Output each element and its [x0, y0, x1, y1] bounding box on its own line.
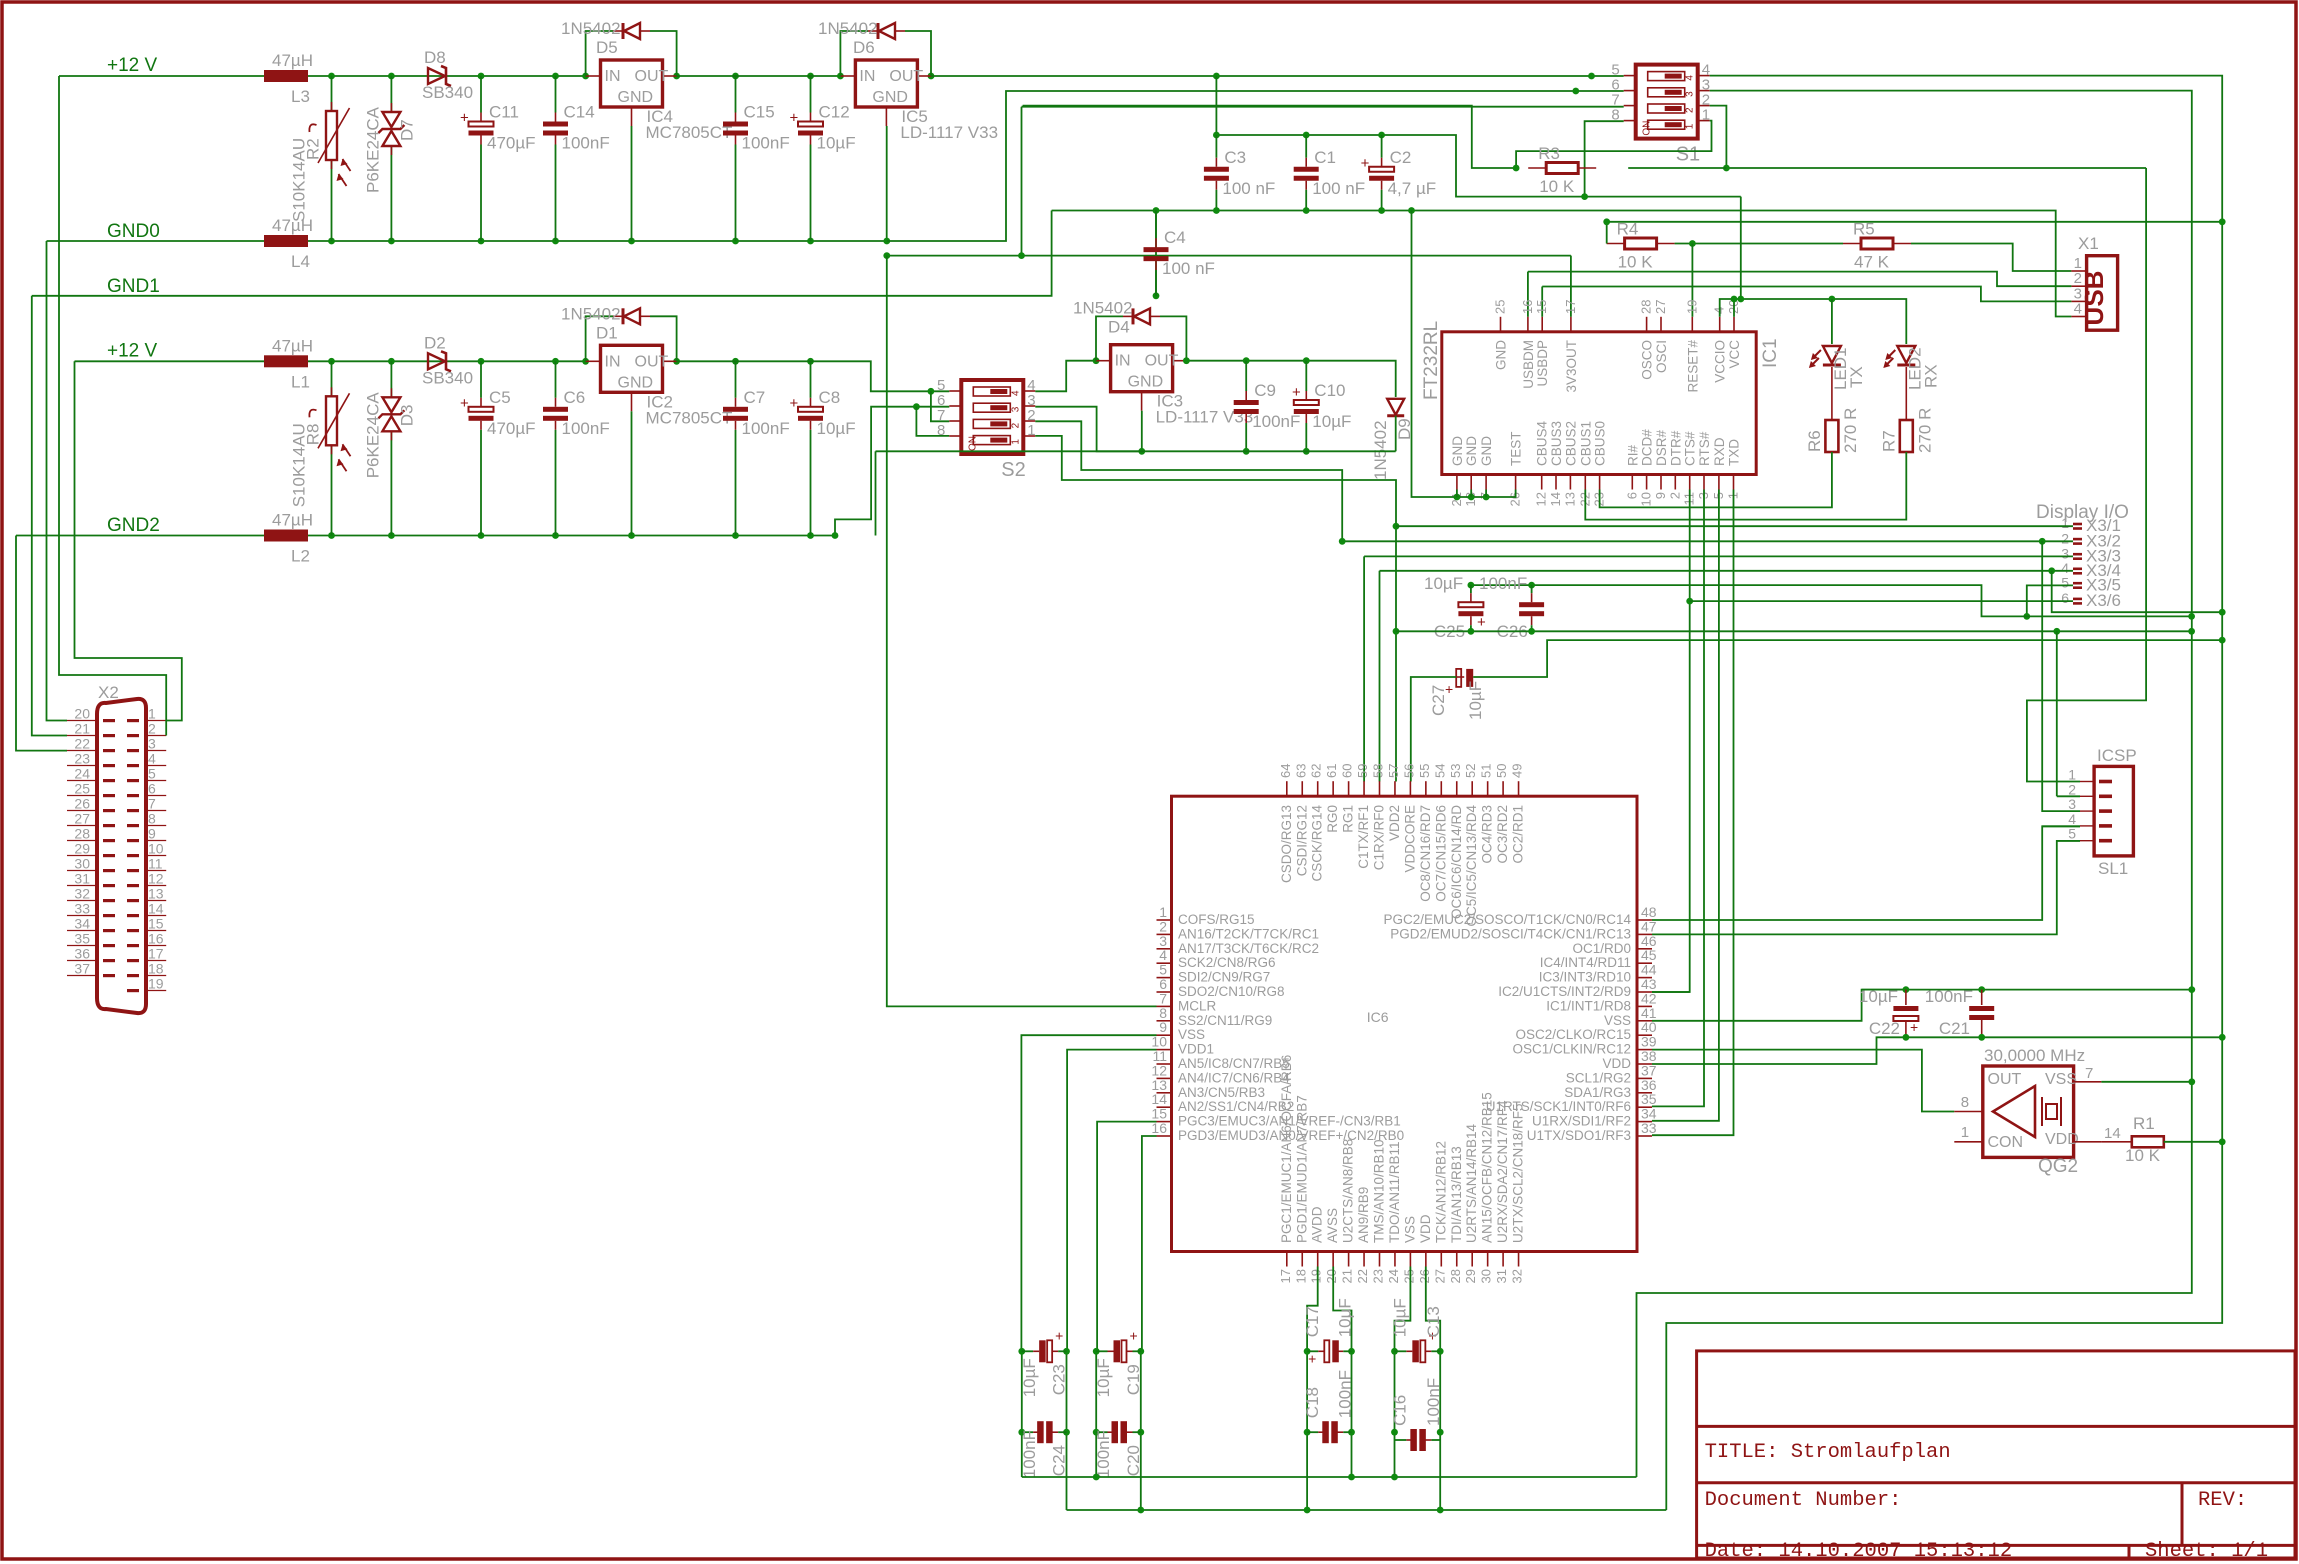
wire X3/1 row — [1396, 525, 2073, 527]
svg-text:25: 25 — [74, 781, 90, 797]
svg-text:+: + — [1130, 1327, 1138, 1343]
junction — [478, 358, 485, 365]
svg-text:OSCO: OSCO — [1640, 340, 1655, 380]
pin 5 RXD IC1 — [1718, 475, 1720, 490]
wire USBDM to X1 pin2 — [1528, 272, 2071, 287]
svg-text:1: 1 — [2068, 767, 2076, 783]
wire 5V to IC5 — [811, 75, 841, 77]
svg-text:U2RTS/AN14/RB14: U2RTS/AN14/RB14 — [1464, 1123, 1479, 1243]
svg-text:10µF: 10µF — [1020, 1358, 1039, 1397]
wire X3/4 riser — [1379, 571, 1381, 782]
svg-text:SB340: SB340 — [422, 83, 473, 102]
wire X3/3 row — [1364, 555, 2073, 557]
wire USB GND row — [876, 450, 1396, 452]
svg-text:AN9/RB9: AN9/RB9 — [1356, 1187, 1371, 1243]
svg-text:C13: C13 — [1424, 1306, 1443, 1337]
pin 34 IC6 — [1637, 1121, 1652, 1123]
svg-text:C20: C20 — [1124, 1445, 1143, 1476]
svg-text:8: 8 — [937, 422, 945, 439]
wire GND1 riser — [32, 211, 1052, 296]
wire S1 pin7 net row — [887, 255, 1571, 257]
pin 5 X2 — [146, 780, 166, 782]
svg-text:18: 18 — [148, 961, 164, 977]
svg-text:IN: IN — [605, 353, 621, 370]
svg-text:8: 8 — [1961, 1094, 1969, 1111]
wire X2 pin22 GND2 — [16, 536, 67, 751]
inductor L2 — [264, 530, 308, 542]
pin 7 X2 — [146, 810, 166, 812]
svg-text:3: 3 — [2068, 796, 2076, 812]
wire PGC2 pin48 to ICSP4 — [1652, 826, 2080, 920]
svg-text:CBUS4: CBUS4 — [1535, 420, 1550, 466]
svg-text:+: + — [460, 110, 469, 127]
svg-text:1: 1 — [148, 706, 156, 722]
wire VSS pin9 — [1021, 1035, 1156, 1351]
svg-text:10 K: 10 K — [1618, 253, 1654, 272]
pin 35 X2 — [67, 945, 97, 947]
pin 59 IC6 — [1363, 781, 1365, 796]
svg-text:VDD1: VDD1 — [1178, 1042, 1214, 1057]
svg-text:CBUS0: CBUS0 — [1593, 421, 1608, 466]
capacitor C20 — [1096, 1431, 1107, 1433]
diode D6 — [868, 30, 878, 32]
svg-text:47µH: 47µH — [272, 51, 313, 70]
svg-text:47µH: 47µH — [272, 511, 313, 530]
pin 3 SL1 — [2080, 810, 2094, 812]
wire 3V3OUT riser — [1570, 256, 1572, 317]
wire X3/2 row — [1342, 540, 2073, 542]
capacitor C16 — [1395, 1439, 1407, 1441]
capacitor C12 — [810, 76, 812, 113]
pin 62 IC6 — [1317, 781, 1319, 796]
svg-text:P6KE24CA: P6KE24CA — [363, 106, 382, 193]
svg-text:GND1: GND1 — [107, 276, 160, 297]
svg-text:Date: 14.10.2007 15:13:12: Date: 14.10.2007 15:13:12 — [1705, 1540, 2013, 1563]
inductor L3 — [264, 70, 308, 82]
svg-text:34: 34 — [74, 916, 90, 932]
svg-text:S10K14AU: S10K14AU — [290, 138, 309, 222]
svg-text:31: 31 — [74, 871, 90, 887]
pin 32 IC6 — [1518, 1252, 1520, 1267]
svg-text:FT232RL: FT232RL — [1421, 321, 1442, 400]
DIP switch S2 — [961, 380, 1023, 454]
wire X2 pin1 +12V(2) — [75, 361, 182, 720]
pin 14 QG2 — [2074, 1141, 2102, 1143]
wire S1 pin8 to 3.3V — [1585, 121, 1624, 196]
pin 10 X2 — [146, 855, 166, 857]
wire FT232 GND row — [1412, 211, 1516, 498]
svg-text:33: 33 — [1641, 1120, 1657, 1136]
svg-text:GND: GND — [872, 89, 908, 106]
svg-text:VCCIO: VCCIO — [1713, 340, 1728, 383]
svg-text:TMS/AN10/RB10: TMS/AN10/RB10 — [1372, 1139, 1387, 1243]
pin 7 IC6 — [1157, 1005, 1172, 1007]
wire 3.3V branch row — [1215, 76, 1217, 135]
pin 6 X2 — [146, 795, 166, 797]
pin 30 IC6 — [1487, 1252, 1489, 1267]
svg-text:1N5402: 1N5402 — [818, 19, 878, 38]
wire PGD2 pin47 to ICSP5 — [1652, 841, 2080, 935]
wire CBUS1 to R7 — [1585, 452, 1906, 520]
capacitor C21 — [1981, 990, 1983, 1005]
pin 12 CBUS4 IC1 — [1541, 475, 1543, 490]
svg-text:TDI/AN13/RB13: TDI/AN13/RB13 — [1449, 1146, 1464, 1243]
pin 37 X2 — [67, 975, 97, 977]
svg-text:+12 V: +12 V — [107, 340, 158, 361]
pin 13 CBUS2 IC1 — [1569, 475, 1571, 490]
svg-text:30: 30 — [74, 856, 90, 872]
pin 29 X2 — [67, 855, 97, 857]
wire USBDP to X1 pin3 — [1542, 287, 2071, 302]
pin 29 IC6 — [1471, 1252, 1473, 1267]
svg-text:OC5/IC5/CN13/RD4: OC5/IC5/CN13/RD4 — [1464, 805, 1479, 927]
wire ICSP pin2 riser — [2056, 631, 2058, 796]
wire S2 pin3 to GND row — [1035, 407, 1142, 452]
svg-text:RX: RX — [1921, 364, 1940, 388]
wire R3 right net — [1628, 167, 1726, 169]
svg-text:8: 8 — [1611, 107, 1619, 124]
pin 10 IC6 — [1157, 1049, 1172, 1051]
pin 36 IC6 — [1637, 1092, 1652, 1094]
wire C21/C22 top row — [1862, 989, 2192, 991]
wire S2 pin2 to X3/2 — [1035, 421, 1342, 541]
wire LED1 to R6 — [1831, 367, 1833, 420]
svg-text:100nF: 100nF — [562, 419, 610, 438]
svg-text:C15: C15 — [744, 103, 775, 122]
pin 23 CBUS0 IC1 — [1599, 475, 1601, 490]
wire VDD1 pin10 — [1067, 1050, 1156, 1352]
svg-text:LD-1117 V33: LD-1117 V33 — [900, 123, 998, 142]
pin 46 IC6 — [1637, 948, 1652, 950]
svg-text:10µF: 10µF — [817, 419, 856, 438]
svg-text:AVSS: AVSS — [1325, 1208, 1340, 1243]
svg-text:27: 27 — [1432, 1269, 1447, 1283]
wire GND rail — [47, 240, 265, 242]
pin 4 VCCIO IC1 — [1719, 317, 1721, 332]
svg-text:AN17/T3CK/T6CK/RC2: AN17/T3CK/T6CK/RC2 — [1178, 941, 1319, 956]
svg-text:VDD: VDD — [1418, 1214, 1433, 1243]
svg-text:C9: C9 — [1254, 381, 1276, 400]
pin X3/5 — [2073, 582, 2082, 585]
pin 12 X2 — [146, 885, 166, 887]
wire C25/C26 top row — [1471, 585, 2192, 616]
svg-text:Sheet: 1/1: Sheet: 1/1 — [2145, 1540, 2268, 1563]
svg-text:VDD2: VDD2 — [1387, 805, 1402, 841]
pin 2 X2 — [146, 735, 166, 737]
svg-text:OUT: OUT — [889, 68, 923, 85]
pin 2 X1 — [2071, 285, 2086, 287]
svg-text:R6: R6 — [1805, 430, 1824, 452]
pin 21 GND IC1 — [1456, 475, 1458, 490]
capacitor C27 — [1456, 676, 1464, 678]
svg-text:+: + — [1477, 614, 1486, 631]
svg-text:5: 5 — [2068, 826, 2076, 842]
svg-text:OC7/CN15/RD6: OC7/CN15/RD6 — [1433, 805, 1448, 902]
svg-text:AN15/OCFB/CN12/RB15: AN15/OCFB/CN12/RB15 — [1480, 1092, 1495, 1243]
varistor R8 — [331, 387, 333, 396]
resistor R4 — [1607, 243, 1625, 245]
pin 8 IC6 — [1157, 1020, 1172, 1022]
pin 24 X2 — [67, 780, 97, 782]
wire varistor branch — [331, 76, 333, 241]
wire CBUS0 to R6 — [1600, 452, 1832, 507]
svg-text:+: + — [460, 395, 469, 412]
wire VSS pin25 — [1395, 1267, 1411, 1352]
svg-text:+: + — [1292, 384, 1301, 401]
pin 26 TEST IC1 — [1515, 475, 1517, 490]
svg-text:5: 5 — [2061, 574, 2069, 590]
svg-text:12: 12 — [1534, 492, 1549, 506]
pin 43 IC6 — [1637, 991, 1652, 993]
svg-text:3: 3 — [2061, 545, 2069, 561]
svg-text:R1: R1 — [2133, 1114, 2155, 1133]
pin 20 VCC IC1 — [1733, 317, 1735, 332]
wire S1 pin3 right rail — [1637, 91, 2192, 1477]
pin 19 X2 — [146, 990, 166, 992]
pin 51 IC6 — [1487, 781, 1489, 796]
svg-text:X2: X2 — [98, 683, 119, 702]
capacitor C9 — [1245, 361, 1247, 391]
svg-text:CBUS2: CBUS2 — [1563, 421, 1578, 466]
pin 28 IC6 — [1456, 1252, 1458, 1267]
svg-text:3: 3 — [1010, 406, 1021, 412]
svg-text:24: 24 — [1386, 1269, 1401, 1283]
svg-text:SDA1/RG3: SDA1/RG3 — [1564, 1085, 1631, 1100]
svg-text:ON: ON — [1642, 121, 1653, 136]
svg-text:4: 4 — [2074, 301, 2082, 318]
pin 16 USBDM IC1 — [1527, 317, 1529, 332]
svg-text:VDDCORE: VDDCORE — [1402, 805, 1417, 873]
wire diode loop — [586, 31, 613, 76]
svg-text:X1: X1 — [2078, 234, 2099, 253]
svg-text:RG1: RG1 — [1341, 805, 1356, 833]
svg-text:S2: S2 — [1001, 459, 1025, 481]
svg-text:C14: C14 — [564, 103, 595, 122]
IC IC1 FT232RL — [1442, 332, 1756, 475]
pin 4 SL1 — [2080, 825, 2094, 827]
capacitor C6 — [555, 361, 557, 398]
svg-text:TXD: TXD — [1727, 439, 1742, 466]
svg-text:53: 53 — [1448, 764, 1463, 778]
svg-text:IN: IN — [1115, 353, 1131, 370]
svg-text:22: 22 — [74, 736, 90, 752]
pin 11 IC6 — [1157, 1063, 1172, 1065]
svg-text:2: 2 — [1667, 492, 1682, 499]
svg-text:27: 27 — [1653, 300, 1668, 314]
wire QG2 VSS — [2101, 1081, 2191, 1083]
svg-text:SS2/CN11/RG9: SS2/CN11/RG9 — [1178, 1013, 1272, 1028]
svg-text:19: 19 — [1684, 300, 1699, 314]
svg-text:OSC1/CLKIN/RC12: OSC1/CLKIN/RC12 — [1512, 1042, 1631, 1057]
diode D8 — [428, 68, 445, 84]
pin 49 IC6 — [1518, 781, 1520, 796]
pin 13 IC6 — [1157, 1092, 1172, 1094]
pin 3 X2 — [146, 750, 166, 752]
wire LED2 to R7 — [1905, 367, 1907, 420]
pin 4 X1 — [2071, 316, 2086, 318]
pin 64 IC6 — [1286, 781, 1288, 796]
svg-text:ON: ON — [967, 436, 978, 451]
svg-text:1: 1 — [2061, 515, 2069, 531]
wire R1 right — [2164, 1141, 2222, 1143]
svg-text:58: 58 — [1371, 764, 1386, 778]
oscillator QG2 — [1983, 1066, 2074, 1157]
svg-text:C22: C22 — [1869, 1019, 1900, 1038]
pin 27 IC6 — [1440, 1252, 1442, 1267]
svg-text:+: + — [1361, 155, 1370, 172]
svg-text:IC1/INT1/RD8: IC1/INT1/RD8 — [1546, 998, 1631, 1013]
svg-text:ICSP: ICSP — [2097, 746, 2137, 765]
svg-text:5: 5 — [148, 766, 156, 782]
svg-text:OC6/IC6/CN14/RD: OC6/IC6/CN14/RD — [1449, 805, 1464, 919]
svg-text:GND: GND — [1464, 436, 1479, 466]
svg-text:S10K14AU: S10K14AU — [290, 423, 309, 507]
wire regulator GND — [631, 126, 633, 241]
pin 14 CBUS3 IC1 — [1555, 475, 1557, 490]
svg-text:L3: L3 — [291, 87, 310, 106]
pin 6 RI# IC1 — [1631, 475, 1633, 490]
pin 56 IC6 — [1409, 781, 1411, 796]
svg-text:PGC1/EMUC1/AN6/OCFA/RB6: PGC1/EMUC1/AN6/OCFA/RB6 — [1279, 1055, 1294, 1243]
svg-text:49: 49 — [1510, 764, 1525, 778]
pin 50 IC6 — [1502, 781, 1504, 796]
capacitor C2 — [1381, 135, 1383, 158]
pin 3 IC6 — [1157, 948, 1172, 950]
svg-text:GND: GND — [1450, 436, 1465, 466]
pin 8 QG2 — [1954, 1111, 1983, 1113]
resistor R1 — [2101, 1141, 2131, 1143]
pin 7 QG2 — [2074, 1081, 2102, 1083]
svg-text:4: 4 — [1685, 75, 1696, 81]
svg-text:CSDI/RG12: CSDI/RG12 — [1294, 805, 1309, 876]
svg-text:11: 11 — [148, 856, 163, 872]
pin 21 IC6 — [1348, 1252, 1350, 1267]
svg-text:VSS: VSS — [1402, 1216, 1417, 1243]
wire VDD rail bottom — [1067, 1509, 1667, 1511]
pin 35 IC6 — [1637, 1106, 1652, 1108]
pin 10 DCD# IC1 — [1646, 475, 1648, 490]
pin 12 IC6 — [1157, 1077, 1172, 1079]
svg-text:SB340: SB340 — [422, 368, 473, 387]
svg-text:MCLR: MCLR — [1178, 998, 1217, 1013]
pin 33 X2 — [67, 915, 97, 917]
pin 38 IC6 — [1637, 1063, 1652, 1065]
LED LED1 — [1823, 346, 1841, 363]
svg-text:SDO2/CN10/RG8: SDO2/CN10/RG8 — [1178, 984, 1285, 999]
svg-text:1N5402: 1N5402 — [1371, 420, 1390, 480]
wire reset row — [1675, 243, 1843, 245]
svg-text:X3/6: X3/6 — [2086, 591, 2121, 610]
junction — [328, 73, 335, 80]
wire ICSP pin4 stub — [2042, 825, 2080, 827]
wire C25/C26 bottom row — [1396, 630, 2192, 632]
pin 57 IC6 — [1394, 781, 1396, 796]
pin X3/4 — [2073, 568, 2082, 571]
svg-text:23: 23 — [74, 751, 90, 767]
svg-text:RESET#: RESET# — [1685, 340, 1700, 393]
svg-text:15: 15 — [148, 916, 164, 932]
svg-text:32: 32 — [74, 886, 90, 902]
wire VCC rail — [1740, 197, 1742, 299]
svg-text:3: 3 — [148, 736, 156, 752]
svg-text:PGC2/EMUC2/SOSCO/T1CK/CN0/RC14: PGC2/EMUC2/SOSCO/T1CK/CN0/RC14 — [1383, 912, 1631, 927]
svg-text:C19: C19 — [1124, 1364, 1143, 1395]
svg-text:14: 14 — [2104, 1125, 2121, 1142]
svg-text:8: 8 — [148, 811, 156, 827]
pin 45 IC6 — [1637, 962, 1652, 964]
capacitor C14 — [555, 76, 557, 113]
wire D4 loop — [1096, 316, 1123, 360]
wire X2 pin21 GND1 — [32, 296, 67, 736]
pin 18 X2 — [146, 975, 166, 977]
capacitor C17 — [1307, 1350, 1318, 1352]
svg-text:6: 6 — [148, 781, 156, 797]
pin 41 IC6 — [1637, 1020, 1652, 1022]
svg-text:28: 28 — [1448, 1269, 1463, 1283]
wire pin41 VSS — [1652, 990, 1906, 1021]
svg-text:OUT: OUT — [635, 353, 669, 370]
resistor R3 — [1528, 167, 1546, 169]
svg-text:IC3/INT3/RD10: IC3/INT3/RD10 — [1539, 970, 1631, 985]
pin 15 X2 — [146, 930, 166, 932]
svg-text:56: 56 — [1401, 764, 1416, 778]
pin 11 CTS# IC1 — [1689, 475, 1691, 490]
svg-text:6: 6 — [2061, 590, 2069, 606]
svg-text:U1TX/SDO1/RF3: U1TX/SDO1/RF3 — [1527, 1128, 1631, 1143]
wire IC5 GND — [886, 126, 888, 241]
svg-text:PGD2/EMUD2/SOSCI/T4CK/CN1/RC13: PGD2/EMUD2/SOSCI/T4CK/CN1/RC13 — [1390, 926, 1631, 941]
svg-text:GND: GND — [618, 374, 654, 391]
svg-text:IC1: IC1 — [1760, 338, 1781, 368]
svg-text:19: 19 — [1309, 1269, 1324, 1283]
svg-text:IN: IN — [605, 68, 621, 85]
resistor R5 — [1843, 243, 1861, 245]
svg-text:C17: C17 — [1303, 1306, 1322, 1337]
wire X3/4 branch down — [2052, 571, 2223, 612]
pin 31 IC6 — [1502, 1252, 1504, 1267]
svg-text:SCK2/CN8/RG6: SCK2/CN8/RG6 — [1178, 955, 1276, 970]
pin 1 X1 — [2071, 270, 2086, 272]
svg-text:R3: R3 — [1538, 144, 1560, 163]
svg-text:13: 13 — [148, 886, 164, 902]
svg-text:S1: S1 — [1676, 144, 1700, 166]
pin 22 X2 — [67, 750, 97, 752]
svg-text:47µH: 47µH — [272, 336, 313, 355]
pin 5 SL1 — [2080, 840, 2094, 842]
pin 5 IC6 — [1157, 977, 1172, 979]
svg-text:L2: L2 — [291, 547, 310, 566]
svg-text:1: 1 — [1010, 439, 1021, 445]
svg-text:36: 36 — [74, 946, 90, 962]
wire ICSP pin5 stub — [2057, 840, 2080, 842]
svg-text:54: 54 — [1432, 764, 1447, 778]
svg-text:C23: C23 — [1050, 1364, 1069, 1395]
svg-text:DCD#: DCD# — [1640, 429, 1655, 466]
wire S1 pin1 to R3 left — [1516, 121, 1711, 168]
svg-text:28: 28 — [1639, 300, 1654, 314]
pin 33 IC6 — [1637, 1135, 1652, 1137]
capacitor C13 — [1395, 1350, 1407, 1352]
wire AVSS pin20 — [1333, 1267, 1351, 1352]
pin 11 X2 — [146, 870, 166, 872]
svg-text:MC7805CT: MC7805CT — [646, 408, 733, 427]
pin 6 IC6 — [1157, 991, 1172, 993]
svg-text:+: + — [1055, 1327, 1063, 1343]
wire X3/4 row — [1380, 570, 2074, 572]
svg-text:28: 28 — [74, 826, 90, 842]
pin 13 X2 — [146, 900, 166, 902]
pin 19 RESET# IC1 — [1691, 317, 1693, 332]
